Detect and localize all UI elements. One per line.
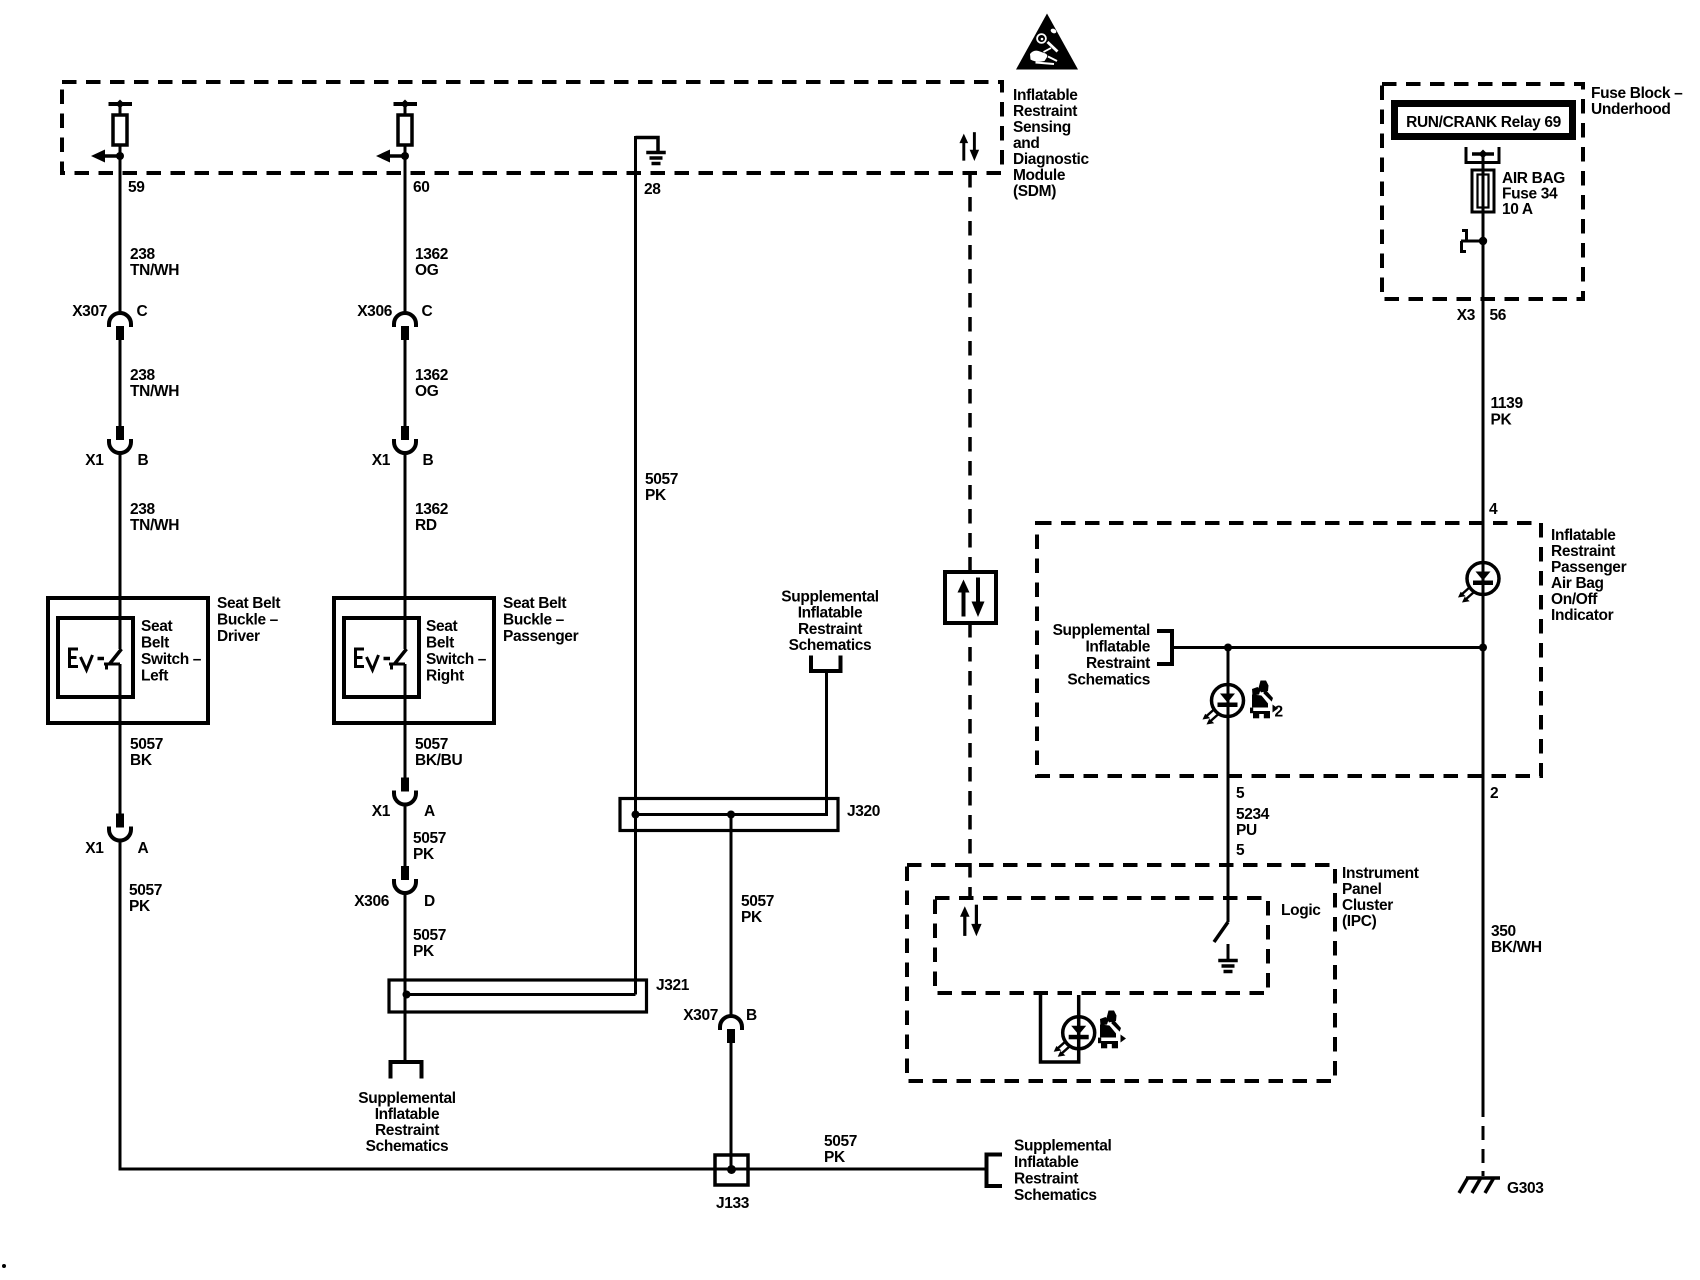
seat belt switch right symbol bbox=[356, 649, 407, 670]
svg-text:Seat Belt: Seat Belt bbox=[503, 595, 566, 612]
svg-text:Driver: Driver bbox=[217, 628, 260, 645]
wire 5057 PK passenger lower bbox=[404, 893, 407, 1062]
wire label 1362 OG bbox=[415, 246, 448, 279]
wire label 5057 BK bbox=[130, 736, 163, 769]
svg-text:X307: X307 bbox=[72, 303, 107, 320]
connector X1 pin A driver bbox=[109, 814, 131, 841]
indicator horizontal wire bbox=[1172, 646, 1483, 649]
svg-text:X306: X306 bbox=[354, 893, 390, 910]
svg-text:X1: X1 bbox=[85, 840, 104, 857]
svg-text:J133: J133 bbox=[716, 1195, 750, 1212]
G303 label bbox=[1507, 1180, 1544, 1197]
svg-text:PK: PK bbox=[1491, 412, 1513, 429]
svg-text:B: B bbox=[138, 452, 149, 469]
indicator LED 2 bbox=[1203, 685, 1244, 725]
svg-text:Switch –: Switch – bbox=[141, 651, 202, 668]
svg-text:Belt: Belt bbox=[141, 635, 169, 652]
svg-text:C: C bbox=[422, 303, 433, 320]
label 2 icon bbox=[1275, 704, 1283, 721]
seat belt switch right inner box bbox=[344, 618, 419, 697]
svg-text:60: 60 bbox=[413, 179, 430, 196]
svg-text:238: 238 bbox=[130, 501, 156, 518]
connector X1 pin B driver bbox=[109, 426, 131, 453]
serial data dashed line bbox=[968, 173, 972, 899]
svg-text:1362: 1362 bbox=[415, 501, 448, 518]
wire label 238 TN/WH bbox=[130, 367, 179, 400]
svg-text:PK: PK bbox=[413, 943, 435, 960]
fuse block terminal clip bbox=[1461, 231, 1487, 252]
svg-text:Restraint: Restraint bbox=[1086, 655, 1150, 672]
junction dot J321 bbox=[403, 991, 411, 999]
svg-text:Panel: Panel bbox=[1342, 881, 1382, 898]
svg-text:Logic: Logic bbox=[1281, 902, 1321, 919]
svg-text:Inflatable: Inflatable bbox=[1551, 527, 1616, 544]
wire label 1362 RD bbox=[415, 501, 448, 534]
svg-text:1139: 1139 bbox=[1491, 395, 1524, 412]
svg-text:5057: 5057 bbox=[415, 736, 448, 753]
wire label 5057 PK bbox=[413, 927, 446, 960]
svg-text:BK: BK bbox=[130, 752, 153, 769]
wire label 5234 PU bbox=[1236, 806, 1270, 839]
SDM serial data arrows icon bbox=[959, 132, 979, 161]
svg-text:A: A bbox=[138, 840, 149, 857]
svg-text:Fuse 34: Fuse 34 bbox=[1502, 186, 1558, 203]
supplemental schematics label left bbox=[1053, 622, 1151, 689]
wire label 1362 OG bbox=[415, 367, 448, 400]
IPC indicator lamp loop bbox=[1041, 995, 1079, 1062]
junction dot J320 middle bbox=[727, 811, 735, 819]
svg-text:1362: 1362 bbox=[415, 246, 448, 263]
splice J321 box bbox=[389, 980, 647, 1012]
svg-text:5: 5 bbox=[1236, 842, 1245, 859]
IPC label bbox=[1342, 865, 1419, 930]
seat belt buckle driver outer box bbox=[48, 598, 208, 723]
passenger air bag indicator dashed box bbox=[1037, 523, 1541, 776]
wire 238 TN/WH circuit 59 upper bbox=[119, 156, 122, 313]
svg-text:Right: Right bbox=[426, 668, 464, 685]
svg-text:X307: X307 bbox=[683, 1007, 718, 1024]
X307 C labels bbox=[72, 303, 147, 320]
svg-text:238: 238 bbox=[130, 367, 156, 384]
svg-text:D: D bbox=[424, 893, 435, 910]
svg-text:Supplemental: Supplemental bbox=[358, 1090, 455, 1107]
off-page connector bottom right bbox=[987, 1155, 1003, 1187]
wire label 5057 PK bbox=[413, 830, 446, 863]
svg-text:BK/WH: BK/WH bbox=[1491, 939, 1542, 956]
svg-text:PK: PK bbox=[413, 846, 435, 863]
wire 5057 PK passenger upper bbox=[404, 805, 407, 868]
svg-text:BK/BU: BK/BU bbox=[415, 752, 462, 769]
svg-text:PU: PU bbox=[1236, 822, 1257, 839]
wire label 238 TN/WH bbox=[130, 246, 179, 279]
wire 5057 BK bbox=[119, 664, 122, 816]
airbag warning triangle icon bbox=[1016, 14, 1078, 70]
svg-text:Belt: Belt bbox=[426, 635, 454, 652]
off-page connector indicator bbox=[1157, 631, 1172, 664]
seat belt buckle passenger outer box bbox=[334, 598, 494, 723]
SDM module dashed box bbox=[62, 82, 1002, 173]
wire 5057 PK from J320 bbox=[730, 815, 733, 1017]
seat belt switch left label bbox=[141, 618, 202, 685]
svg-text:(IPC): (IPC) bbox=[1342, 913, 1377, 930]
svg-text:Module: Module bbox=[1013, 167, 1066, 184]
wire 5057 BK/BU bbox=[404, 664, 407, 778]
svg-text:Supplemental: Supplemental bbox=[781, 589, 878, 606]
svg-text:Seat: Seat bbox=[426, 618, 458, 635]
svg-text:28: 28 bbox=[644, 181, 661, 198]
svg-text:1362: 1362 bbox=[415, 367, 448, 384]
J321 label bbox=[656, 977, 690, 994]
wire label 1139 PK bbox=[1491, 395, 1524, 429]
seat belt buckle driver label bbox=[217, 595, 280, 645]
svg-text:Diagnostic: Diagnostic bbox=[1013, 151, 1089, 168]
svg-text:Restraint: Restraint bbox=[798, 621, 862, 638]
svg-text:B: B bbox=[423, 452, 434, 469]
stray dot bbox=[2, 1264, 6, 1268]
svg-text:Passenger: Passenger bbox=[1551, 559, 1627, 576]
wire label 238 TN/WH bbox=[130, 501, 179, 534]
svg-text:Left: Left bbox=[141, 668, 168, 685]
svg-text:Passenger: Passenger bbox=[503, 628, 579, 645]
instrument panel cluster dashed box bbox=[907, 865, 1335, 1081]
X1 A labels bbox=[85, 840, 148, 857]
wire 1362 OG circuit 60 upper bbox=[404, 156, 407, 313]
splice J133 box bbox=[715, 1155, 748, 1185]
SDM internal ground at pin 28 bbox=[636, 138, 666, 164]
X1 B labels bbox=[85, 452, 148, 469]
svg-text:PK: PK bbox=[129, 898, 151, 915]
indicator module label bbox=[1551, 527, 1627, 624]
logic serial arrows icon bbox=[960, 905, 982, 937]
svg-text:X1: X1 bbox=[372, 452, 391, 469]
seat belt switch left symbol bbox=[70, 649, 122, 670]
svg-text:10 A: 10 A bbox=[1502, 201, 1533, 218]
svg-text:Seat: Seat bbox=[141, 618, 173, 635]
svg-text:2: 2 bbox=[1275, 704, 1283, 721]
svg-text:Inflatable: Inflatable bbox=[375, 1106, 440, 1123]
svg-text:J321: J321 bbox=[656, 977, 690, 994]
svg-text:Buckle –: Buckle – bbox=[217, 612, 279, 629]
seat belt icon IPC bbox=[1098, 1011, 1127, 1049]
AIR BAG fuse 34 symbol bbox=[1472, 170, 1494, 212]
wire 5234 PU upper bbox=[1227, 648, 1230, 923]
connector X1 pin A passenger bbox=[394, 778, 416, 805]
svg-text:(SDM): (SDM) bbox=[1013, 183, 1056, 200]
connector X307 pin B bbox=[720, 1016, 742, 1043]
svg-text:X1: X1 bbox=[372, 803, 391, 820]
seat belt icon 2 bbox=[1250, 681, 1279, 719]
junction dot indicator right bbox=[1479, 644, 1487, 652]
X307 B labels bbox=[683, 1007, 757, 1024]
SDM internal resistor pin 60 bbox=[376, 100, 417, 163]
svg-text:TN/WH: TN/WH bbox=[130, 517, 179, 534]
wire label 5057 PK bbox=[129, 882, 162, 915]
pin 59 label bbox=[128, 179, 145, 196]
svg-text:Schematics: Schematics bbox=[789, 637, 872, 654]
svg-text:350: 350 bbox=[1491, 923, 1516, 940]
svg-text:AIR BAG: AIR BAG bbox=[1502, 170, 1565, 187]
off-page connector above J320 bbox=[811, 656, 841, 672]
svg-text:56: 56 bbox=[1490, 307, 1507, 324]
svg-text:RD: RD bbox=[415, 517, 437, 534]
svg-text:TN/WH: TN/WH bbox=[130, 262, 179, 279]
svg-text:RUN/CRANK Relay 69: RUN/CRANK Relay 69 bbox=[1406, 114, 1561, 131]
connector X307 pin C bbox=[109, 313, 131, 340]
pin 5 label lower bbox=[1236, 842, 1245, 859]
off-page label supplemental schematics top bbox=[781, 589, 878, 655]
serial data arrows box bbox=[945, 572, 996, 623]
svg-text:Fuse Block –: Fuse Block – bbox=[1591, 85, 1683, 102]
svg-text:Restraint: Restraint bbox=[1551, 543, 1615, 560]
svg-text:Inflatable: Inflatable bbox=[1013, 87, 1078, 104]
svg-text:Indicator: Indicator bbox=[1551, 607, 1614, 624]
svg-text:B: B bbox=[746, 1007, 757, 1024]
svg-text:Air Bag: Air Bag bbox=[1551, 575, 1604, 592]
X1 A labels passenger bbox=[372, 803, 435, 820]
off-page connector below J321 bbox=[391, 1062, 422, 1079]
svg-text:PK: PK bbox=[645, 487, 667, 504]
svg-text:Restraint: Restraint bbox=[1014, 1171, 1078, 1188]
wire dashed to G303 bbox=[1482, 1126, 1485, 1176]
svg-text:Seat Belt: Seat Belt bbox=[217, 595, 280, 612]
svg-text:Inflatable: Inflatable bbox=[798, 605, 863, 622]
X3 56 labels bbox=[1457, 307, 1507, 324]
svg-text:J320: J320 bbox=[847, 803, 880, 820]
svg-text:5057: 5057 bbox=[413, 830, 446, 847]
logic switch bbox=[1214, 922, 1228, 942]
wire label 5057 PK bbox=[645, 471, 678, 504]
pin 5 label upper bbox=[1236, 785, 1245, 802]
wire 5057 PK driver bbox=[120, 841, 987, 1170]
wire 238 TN/WH circuit 59 lower bbox=[119, 453, 122, 649]
IPC indicator LED bbox=[1054, 1017, 1095, 1057]
SDM module label bbox=[1013, 87, 1089, 200]
svg-text:Switch –: Switch – bbox=[426, 651, 487, 668]
svg-text:5: 5 bbox=[1236, 785, 1245, 802]
svg-text:OG: OG bbox=[415, 383, 439, 400]
X306 D labels bbox=[354, 893, 435, 910]
svg-text:Underhood: Underhood bbox=[1591, 101, 1671, 118]
seat belt switch left inner box bbox=[58, 618, 133, 697]
svg-text:C: C bbox=[137, 303, 148, 320]
svg-text:A: A bbox=[424, 803, 435, 820]
svg-text:Schematics: Schematics bbox=[1014, 1187, 1097, 1204]
wire 238 TN/WH circuit 59 middle bbox=[119, 340, 122, 427]
svg-text:TN/WH: TN/WH bbox=[130, 383, 179, 400]
svg-text:4: 4 bbox=[1489, 501, 1498, 518]
logic label bbox=[1281, 902, 1321, 919]
off-page label supplemental schematics bottom bbox=[1014, 1138, 1111, 1205]
RUN/CRANK Relay 69 box bbox=[1395, 104, 1573, 137]
svg-text:Cluster: Cluster bbox=[1342, 897, 1393, 914]
wire 1362 OG circuit 60 middle bbox=[404, 340, 407, 427]
wire 5057 PK from pin 28 bbox=[634, 136, 637, 995]
svg-text:5057: 5057 bbox=[130, 736, 163, 753]
J320 label bbox=[847, 803, 880, 820]
svg-text:G303: G303 bbox=[1507, 1180, 1544, 1197]
svg-text:Schematics: Schematics bbox=[366, 1138, 449, 1155]
wire label 5057 PK bbox=[741, 893, 774, 926]
junction dot J320 left bbox=[632, 811, 640, 819]
wire from X307 B to J133 bbox=[730, 1043, 733, 1169]
svg-text:5057: 5057 bbox=[824, 1133, 857, 1150]
svg-text:Restraint: Restraint bbox=[1013, 103, 1077, 120]
svg-text:Supplemental: Supplemental bbox=[1053, 622, 1150, 639]
svg-text:PK: PK bbox=[741, 909, 763, 926]
relay output terminal symbol bbox=[1466, 147, 1499, 170]
svg-text:5057: 5057 bbox=[741, 893, 774, 910]
SDM internal resistor pin 59 bbox=[91, 100, 132, 163]
pin 28 label bbox=[644, 181, 661, 198]
pin 60 label bbox=[413, 179, 430, 196]
svg-text:X1: X1 bbox=[85, 452, 104, 469]
svg-text:Buckle –: Buckle – bbox=[503, 612, 565, 629]
wire label 5057 PK bottom bbox=[824, 1133, 857, 1166]
pin 4 label bbox=[1489, 501, 1498, 518]
svg-text:X3: X3 bbox=[1457, 307, 1476, 324]
X1 B labels passenger bbox=[372, 452, 434, 469]
seat belt switch right label bbox=[426, 618, 487, 685]
wire 1362 RD bbox=[404, 453, 407, 649]
wire label 350 BK/WH bbox=[1491, 923, 1542, 956]
svg-text:Inflatable: Inflatable bbox=[1085, 639, 1150, 656]
svg-text:59: 59 bbox=[128, 179, 145, 196]
off-page label supplemental schematics bbox=[358, 1090, 455, 1155]
connector X306 pin D bbox=[394, 866, 416, 893]
svg-text:X306: X306 bbox=[357, 303, 393, 320]
svg-text:Restraint: Restraint bbox=[375, 1122, 439, 1139]
fuse block underhood label bbox=[1591, 85, 1683, 118]
svg-text:OG: OG bbox=[415, 262, 439, 279]
wire from fuse bbox=[1482, 154, 1485, 1117]
logic dashed box bbox=[935, 898, 1268, 993]
pin 2 label bbox=[1490, 785, 1498, 802]
junction dot indicator left bbox=[1224, 644, 1232, 652]
wire label 5057 BK/BU bbox=[415, 736, 462, 769]
seat belt buckle passenger label bbox=[503, 595, 579, 645]
svg-text:Supplemental: Supplemental bbox=[1014, 1138, 1111, 1155]
fuse block underhood dashed box bbox=[1382, 84, 1583, 299]
svg-text:2: 2 bbox=[1490, 785, 1498, 802]
svg-text:5057: 5057 bbox=[413, 927, 446, 944]
svg-text:5234: 5234 bbox=[1236, 806, 1270, 823]
svg-text:Schematics: Schematics bbox=[1067, 672, 1150, 689]
AIR BAG fuse label bbox=[1502, 170, 1565, 218]
svg-text:On/Off: On/Off bbox=[1551, 591, 1598, 608]
svg-text:Sensing: Sensing bbox=[1013, 119, 1071, 136]
X306 C labels bbox=[357, 303, 432, 320]
J133 label bbox=[716, 1195, 750, 1212]
chassis ground G303 bbox=[1459, 1178, 1500, 1194]
svg-text:Instrument: Instrument bbox=[1342, 865, 1419, 882]
svg-text:PK: PK bbox=[824, 1149, 846, 1166]
svg-text:Inflatable: Inflatable bbox=[1014, 1154, 1079, 1171]
connector X306 pin C bbox=[394, 313, 416, 340]
svg-text:and: and bbox=[1013, 135, 1040, 152]
indicator LED on wire 4 bbox=[1458, 563, 1499, 603]
connector X1 pin B passenger bbox=[394, 426, 416, 453]
svg-text:5057: 5057 bbox=[129, 882, 162, 899]
splice J320 box bbox=[620, 671, 838, 831]
logic ground bbox=[1218, 944, 1238, 972]
svg-text:5057: 5057 bbox=[645, 471, 678, 488]
svg-text:238: 238 bbox=[130, 246, 156, 263]
